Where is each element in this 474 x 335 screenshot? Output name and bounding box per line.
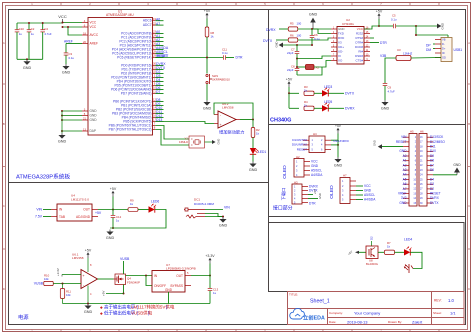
svg-text:DCD#: DCD# xyxy=(355,45,363,49)
resistor R4 xyxy=(288,93,290,108)
wire op-amp out to Q4 gate xyxy=(98,278,114,280)
svg-text:+5V: +5V xyxy=(376,9,383,13)
svg-text:VUSB: VUSB xyxy=(120,257,130,261)
svg-text:100: 100 xyxy=(297,22,302,26)
svg-text:ATMEGA328P-MU: ATMEGA328P-MU xyxy=(106,13,134,17)
svg-text:Sheet:: Sheet: xyxy=(433,311,442,315)
svg-text:CTS#: CTS# xyxy=(355,58,363,62)
net RESET wire xyxy=(155,57,223,59)
resistor R5 xyxy=(288,27,298,31)
ground flag left rail xyxy=(279,43,283,48)
capacitor C12 xyxy=(112,210,114,216)
wire R8 to SW1 xyxy=(206,37,208,74)
ground under SW1 xyxy=(206,100,208,102)
svg-text:LM1117S-5.0: LM1117S-5.0 xyxy=(71,198,89,202)
svg-text:DC1: DC1 xyxy=(194,198,200,202)
svg-text:8: 8 xyxy=(438,329,440,333)
svg-text:ATMEGA328P系统板: ATMEGA328P系统板 xyxy=(16,173,71,181)
svg-text:7: 7 xyxy=(380,329,382,333)
wire Q4 drain to U7 xyxy=(126,275,153,277)
wire D13 to op-amp + input xyxy=(164,122,215,124)
svg-text:+5V: +5V xyxy=(102,291,106,296)
svg-text:D2: D2 xyxy=(430,187,434,191)
svg-text:OUT: OUT xyxy=(176,274,183,278)
svg-text:GND: GND xyxy=(84,310,93,314)
ground under caps xyxy=(26,59,28,61)
svg-text:A5: A5 xyxy=(403,177,407,181)
svg-text:C4: C4 xyxy=(44,27,48,31)
svg-text:D0/UNRX0: D0/UNRX0 xyxy=(292,143,307,147)
svg-text:GND: GND xyxy=(318,193,322,199)
svg-text:0.1u: 0.1u xyxy=(391,18,397,22)
wire to USB VBUS xyxy=(415,26,417,35)
svg-text:U3: U3 xyxy=(397,48,401,52)
svg-text:OUT: OUT xyxy=(83,208,90,212)
wire U4 out to +5V xyxy=(98,209,128,211)
svg-text:H4: H4 xyxy=(313,132,317,136)
svg-text:D12/MISO: D12/MISO xyxy=(430,140,445,144)
wire U1 GND pins xyxy=(62,110,82,112)
svg-text:1u: 1u xyxy=(19,32,23,36)
svg-text:DVTX: DVTX xyxy=(345,92,355,96)
capacitor C8 22pF xyxy=(295,67,300,69)
svg-text:接口部分: 接口部分 xyxy=(273,205,293,212)
svg-text:18: 18 xyxy=(83,31,87,35)
gnd flag left H5 xyxy=(378,144,382,149)
svg-text:3: 3 xyxy=(147,329,149,333)
wire LED4 return xyxy=(410,252,422,268)
svg-text:Sheet_1: Sheet_1 xyxy=(310,299,330,305)
svg-text:7: 7 xyxy=(380,2,382,6)
svg-text:H5: H5 xyxy=(410,130,414,134)
svg-text:XO: XO xyxy=(338,58,343,62)
svg-text:C10: C10 xyxy=(19,27,25,31)
+5V flag at U4 xyxy=(112,192,114,197)
svg-text:+3.3V: +3.3V xyxy=(205,254,215,258)
svg-text:LED3: LED3 xyxy=(324,85,332,89)
svg-text:GND: GND xyxy=(364,189,372,193)
svg-text:LM1117转换的5V供电: LM1117转换的5V供电 xyxy=(131,304,175,311)
svg-text:GND: GND xyxy=(58,140,67,144)
crystal X2 xyxy=(306,65,315,70)
LED5 xyxy=(314,107,322,109)
svg-text:D-: D- xyxy=(442,42,445,46)
+5V flag CH340 xyxy=(378,15,380,20)
svg-text:GND: GND xyxy=(203,107,212,111)
svg-text:GD: GD xyxy=(442,55,446,59)
svg-text:A4: A4 xyxy=(403,173,407,177)
wire op-amp vee to gnd xyxy=(87,286,89,304)
svg-text:DC005-2.0MM: DC005-2.0MM xyxy=(194,202,214,206)
net label DTR at U2 xyxy=(370,42,379,44)
U1 right pins xyxy=(153,20,156,22)
svg-text:GND: GND xyxy=(165,288,173,292)
svg-text:OLED: OLED xyxy=(329,185,335,199)
svg-text:D4: D4 xyxy=(430,177,434,181)
wire R5 to TXD xyxy=(298,29,331,34)
svg-text:1u: 1u xyxy=(116,219,120,223)
ground under C9 xyxy=(384,100,386,102)
svg-text:6: 6 xyxy=(322,2,324,6)
svg-text:VB: VB xyxy=(442,37,446,41)
svg-text:D8: D8 xyxy=(430,159,434,163)
svg-text:RESET: RESET xyxy=(157,54,168,58)
svg-text:1u: 1u xyxy=(31,32,35,36)
svg-text:R6: R6 xyxy=(290,33,294,37)
svg-text:R5: R5 xyxy=(290,22,294,26)
wire U2 VCC to +5V xyxy=(364,26,379,29)
svg-text:21: 21 xyxy=(83,116,87,120)
svg-text:2: 2 xyxy=(89,2,91,6)
capacitor C7 22pF xyxy=(296,45,298,51)
+5V flag over R8 xyxy=(206,14,208,19)
wire op-amp output to LED column xyxy=(240,119,253,121)
svg-text:D1/UNRX0: D1/UNRX0 xyxy=(334,139,349,143)
svg-text:D2: D2 xyxy=(369,236,373,240)
svg-text:CH340G: CH340G xyxy=(342,22,355,26)
svg-text:20: 20 xyxy=(83,40,87,44)
svg-text:BL2303G: BL2303G xyxy=(366,262,378,266)
svg-text:A4/SDA: A4/SDA xyxy=(311,173,323,177)
wire U7 gnd to rail xyxy=(168,292,170,304)
svg-text:TXD: TXD xyxy=(338,31,344,35)
svg-text:V3: V3 xyxy=(338,40,342,44)
wire feedback loop U6.2 xyxy=(214,103,253,120)
resistor R9 xyxy=(128,208,138,212)
svg-text:GND: GND xyxy=(62,71,71,75)
USB1 pins xyxy=(435,39,441,41)
svg-text:增加驱动能力: 增加驱动能力 xyxy=(219,129,245,136)
svg-text:1.0: 1.0 xyxy=(448,298,455,303)
svg-text:GND: GND xyxy=(249,168,258,172)
svg-text:LED6: LED6 xyxy=(151,200,159,204)
+5V flag LED rows xyxy=(288,83,290,88)
svg-text:ADJ/GND: ADJ/GND xyxy=(76,215,91,219)
svg-text:UD-: UD- xyxy=(338,49,343,53)
svg-text:+3.3V: +3.3V xyxy=(56,268,60,276)
svg-text:D13/SCK: D13/SCK xyxy=(430,135,444,139)
svg-text:RTS#: RTS# xyxy=(356,36,364,40)
svg-text:GND: GND xyxy=(23,66,32,70)
svg-text:D+: D+ xyxy=(442,46,446,50)
svg-text:VIN: VIN xyxy=(401,135,407,139)
svg-text:DVTX: DVTX xyxy=(430,201,439,205)
svg-text:VCC: VCC xyxy=(90,21,97,25)
svg-text:CH340G: CH340G xyxy=(270,118,291,124)
svg-text:4.7uF: 4.7uF xyxy=(388,90,396,94)
LED3 xyxy=(314,92,322,94)
svg-text:DVTX: DVTX xyxy=(263,39,273,43)
svg-text:+5V: +5V xyxy=(286,77,293,81)
wire to DVTX xyxy=(328,92,344,94)
transistor U8 BL2303G xyxy=(366,246,378,259)
wire VCC to U1 pins xyxy=(63,22,83,24)
ground under C3 xyxy=(65,64,67,66)
capacitor C4 xyxy=(42,23,44,30)
svg-text:V3B: V3B xyxy=(380,54,387,58)
title block frame xyxy=(288,292,465,325)
svg-text:VCC: VCC xyxy=(90,25,97,29)
U2 left pins xyxy=(331,28,337,30)
net label RTS xyxy=(370,37,374,39)
wire AREF xyxy=(66,43,82,45)
svg-text:100: 100 xyxy=(297,33,302,37)
wire VCC rail to decoupling caps xyxy=(17,22,63,24)
svg-text:1/1: 1/1 xyxy=(450,311,456,316)
svg-text:DTR: DTR xyxy=(236,56,244,60)
svg-text:VCC: VCC xyxy=(311,160,318,164)
svg-text:D13: D13 xyxy=(156,118,162,122)
svg-text:D7: D7 xyxy=(430,163,434,167)
svg-text:GND: GND xyxy=(453,163,461,167)
svg-text:4: 4 xyxy=(205,2,207,6)
svg-text:Zalert: Zalert xyxy=(412,319,423,324)
svg-text:GND: GND xyxy=(219,224,228,228)
svg-text:A6: A6 xyxy=(403,182,407,186)
xtal cap rail xyxy=(283,44,312,46)
+5V flag op-amp xyxy=(87,254,89,259)
svg-text:REV:: REV: xyxy=(434,299,442,303)
ground op-amp xyxy=(87,304,89,306)
capacitor C6 xyxy=(311,28,313,30)
svg-text:B: B xyxy=(3,122,5,126)
svg-text:D7: D7 xyxy=(156,90,160,94)
svg-text:H6: H6 xyxy=(420,130,424,134)
wire R11 to rail xyxy=(62,299,64,304)
svg-text:DVRX: DVRX xyxy=(430,196,440,200)
svg-text:GND: GND xyxy=(311,164,319,168)
svg-text:0.1u: 0.1u xyxy=(222,51,228,55)
svg-text:AVCC: AVCC xyxy=(90,33,99,37)
wire U3 left to cap column xyxy=(385,58,396,83)
wire AVCC xyxy=(68,27,82,35)
svg-text:12MHZ: 12MHZ xyxy=(403,51,413,55)
wire gnd to U2 xyxy=(313,28,331,30)
resistor R10 xyxy=(44,281,54,285)
resistor R2 xyxy=(252,120,254,128)
svg-text:Company:: Company: xyxy=(329,311,343,315)
svg-text:PD7 (PCINT23/AIN1): PD7 (PCINT23/AIN1) xyxy=(121,92,152,96)
svg-text:D11: D11 xyxy=(430,145,436,149)
svg-text:GND: GND xyxy=(399,201,407,205)
svg-text:TAB: TAB xyxy=(59,215,65,219)
svg-text:LED4: LED4 xyxy=(404,237,412,241)
svg-text:AREF: AREF xyxy=(64,39,73,43)
capacitor C2 xyxy=(28,23,30,30)
wire DC1 VIN xyxy=(205,209,223,211)
ground under C12 xyxy=(110,227,113,229)
gnd rail op-amp section xyxy=(63,303,211,305)
svg-text:A5/SCL: A5/SCL xyxy=(364,193,375,197)
svg-text:GND: GND xyxy=(441,23,445,30)
svg-text:A5/SCL: A5/SCL xyxy=(311,169,322,173)
resistor R7 xyxy=(385,250,395,254)
wire cap bottom rail xyxy=(17,58,43,60)
capacitor C11 in reset line xyxy=(222,55,224,60)
svg-text:2019-08-13: 2019-08-13 xyxy=(347,319,368,324)
svg-text:A6: A6 xyxy=(156,17,160,21)
EasyEDA logo xyxy=(290,308,305,319)
svg-text:RI#: RI# xyxy=(358,49,363,53)
resistor R3 xyxy=(289,92,299,94)
+5V flag H4 xyxy=(337,129,339,134)
svg-text:DTR: DTR xyxy=(309,202,316,206)
svg-text:GND: GND xyxy=(334,164,343,168)
svg-text:+: + xyxy=(219,123,221,127)
photo transistor symbol xyxy=(408,264,410,273)
svg-text:AREF: AREF xyxy=(90,42,99,46)
ground DC1 xyxy=(222,217,224,219)
H5 H6 pins xyxy=(403,136,409,138)
svg-text:A2: A2 xyxy=(403,163,407,167)
svg-text:RESET: RESET xyxy=(430,192,441,196)
svg-text:GND: GND xyxy=(90,109,98,113)
svg-text:GND: GND xyxy=(309,13,318,17)
resistor R8 xyxy=(206,19,208,28)
wire to R5 xyxy=(279,28,288,30)
svg-text:VCC: VCC xyxy=(58,14,67,19)
wire VUSB through Q4 xyxy=(123,261,125,274)
svg-text:A3: A3 xyxy=(403,168,407,172)
LED section box xyxy=(269,223,465,292)
svg-text:RESET: RESET xyxy=(297,147,307,151)
svg-text:C2: C2 xyxy=(31,27,35,31)
ground H4 xyxy=(337,157,339,159)
capacitor C9 4.7uF xyxy=(383,82,388,84)
wire crystal to XI/XO xyxy=(296,58,298,60)
svg-text:OLED: OLED xyxy=(282,165,288,179)
svg-text:FDN340P: FDN340P xyxy=(127,281,140,285)
capacitor C3 xyxy=(65,44,67,53)
svg-text:DVRX: DVRX xyxy=(266,28,276,32)
resistor R11 xyxy=(62,284,64,289)
svg-text:LMV358: LMV358 xyxy=(222,106,234,110)
wire SW1 to ground xyxy=(206,84,208,100)
svg-text:H7: H7 xyxy=(343,173,347,177)
svg-text:0.1u: 0.1u xyxy=(69,56,75,60)
svg-text:SKRPABE010: SKRPABE010 xyxy=(212,78,230,82)
svg-text:10k: 10k xyxy=(44,277,49,281)
svg-text:UD+: UD+ xyxy=(338,45,344,49)
svg-text:3: 3 xyxy=(147,2,149,6)
svg-text:RXD: RXD xyxy=(338,36,344,40)
svg-text:ADC7: ADC7 xyxy=(143,23,152,27)
svg-text:A7: A7 xyxy=(156,22,160,26)
svg-text:USB1: USB1 xyxy=(454,48,463,52)
svg-text:1u: 1u xyxy=(213,291,217,295)
svg-text:D3: D3 xyxy=(430,182,434,186)
svg-text:X2: X2 xyxy=(316,66,320,70)
ground crystal xyxy=(205,141,213,143)
switch SW1 SKRPABE010 xyxy=(206,74,208,76)
svg-text:+5V: +5V xyxy=(313,189,317,194)
svg-text:GND: GND xyxy=(399,149,407,153)
wire U7 out to +3.3V xyxy=(191,275,210,277)
svg-text:GND: GND xyxy=(373,140,377,146)
svg-text:LMV358: LMV358 xyxy=(72,256,84,260)
svg-text:+5V: +5V xyxy=(95,211,102,215)
svg-text:VCC: VCC xyxy=(357,27,364,31)
svg-text:13: 13 xyxy=(83,127,87,131)
svg-text:下载口: 下载口 xyxy=(280,188,287,201)
svg-text:D6: D6 xyxy=(430,168,434,172)
svg-text:PB7 (PCINT7/XTAL2/TOSC2): PB7 (PCINT7/XTAL2/TOSC2) xyxy=(109,128,152,132)
svg-text:6: 6 xyxy=(322,329,324,333)
svg-text:TITLE:: TITLE: xyxy=(289,293,298,297)
wire DC1 gnd xyxy=(205,214,223,217)
svg-text:7.5V: 7.5V xyxy=(35,214,43,218)
LED4 xyxy=(395,251,405,253)
svg-text:ADC6: ADC6 xyxy=(143,19,152,23)
svg-text:LED5: LED5 xyxy=(324,100,332,104)
svg-text:22pF: 22pF xyxy=(287,68,294,72)
wire to + input xyxy=(62,274,81,276)
svg-text:GND: GND xyxy=(275,41,279,47)
svg-text:0.1u: 0.1u xyxy=(314,37,320,41)
svg-text:3V3: 3V3 xyxy=(401,196,407,200)
svg-text:A4/SDA: A4/SDA xyxy=(364,198,376,202)
svg-text:5: 5 xyxy=(264,2,266,6)
svg-text:DAP: DAP xyxy=(90,129,97,133)
svg-text:XI: XI xyxy=(338,54,341,58)
svg-text:VUSB: VUSB xyxy=(34,281,44,285)
svg-text:D1/UNTX0: D1/UNTX0 xyxy=(292,138,307,142)
frame tick marks xyxy=(60,3,62,6)
svg-text:电源: 电源 xyxy=(18,313,29,321)
svg-text:2: 2 xyxy=(89,329,91,333)
svg-text:5: 5 xyxy=(264,329,266,333)
svg-text:+5V: +5V xyxy=(204,9,211,13)
svg-text:LED1: LED1 xyxy=(258,150,266,154)
svg-text:VREF: VREF xyxy=(398,192,407,196)
wire R10 to - input xyxy=(53,283,81,285)
svg-text:A7: A7 xyxy=(403,187,407,191)
H4 right wires xyxy=(331,134,338,141)
svg-text:10k: 10k xyxy=(66,293,71,297)
svg-text:1: 1 xyxy=(31,2,33,6)
svg-text:D9: D9 xyxy=(430,154,434,158)
svg-text:RESET: RESET xyxy=(396,140,407,144)
svg-text:GND: GND xyxy=(381,107,390,111)
svg-text:Your Company: Your Company xyxy=(354,311,380,316)
svg-text:VCC: VCC xyxy=(364,184,371,188)
svg-text:Drawn By:: Drawn By: xyxy=(388,320,402,324)
svg-text:A0: A0 xyxy=(403,154,407,158)
USB connector USB1 xyxy=(441,38,452,62)
svg-text:22pF: 22pF xyxy=(287,51,294,55)
svg-text:Date:: Date: xyxy=(329,320,336,324)
svg-text:LP2985M5-3.3/NOPB: LP2985M5-3.3/NOPB xyxy=(166,267,196,271)
svg-text:PC6 (RESET/PCINT14): PC6 (RESET/PCINT14) xyxy=(117,56,151,60)
gnd flag right H6 xyxy=(433,174,457,176)
svg-text:VIN: VIN xyxy=(36,207,42,211)
svg-text:DTR: DTR xyxy=(380,41,387,45)
svg-text:B: B xyxy=(468,122,470,126)
svg-text:立创EDA: 立创EDA xyxy=(303,314,325,322)
+3.3V flag xyxy=(209,259,211,264)
svg-text:GND: GND xyxy=(217,139,221,145)
wire to DVRX xyxy=(328,107,344,109)
svg-text:1: 1 xyxy=(31,329,33,333)
capacitor C5 xyxy=(379,25,393,27)
svg-text:BYPASS: BYPASS xyxy=(170,284,183,288)
svg-text:4: 4 xyxy=(205,329,207,333)
svg-text:DM: DM xyxy=(426,48,431,52)
svg-text:GND: GND xyxy=(90,118,98,122)
capacitor C13 xyxy=(209,276,211,289)
svg-text:GND: GND xyxy=(106,236,115,240)
svg-text:VIN: VIN xyxy=(224,205,230,209)
